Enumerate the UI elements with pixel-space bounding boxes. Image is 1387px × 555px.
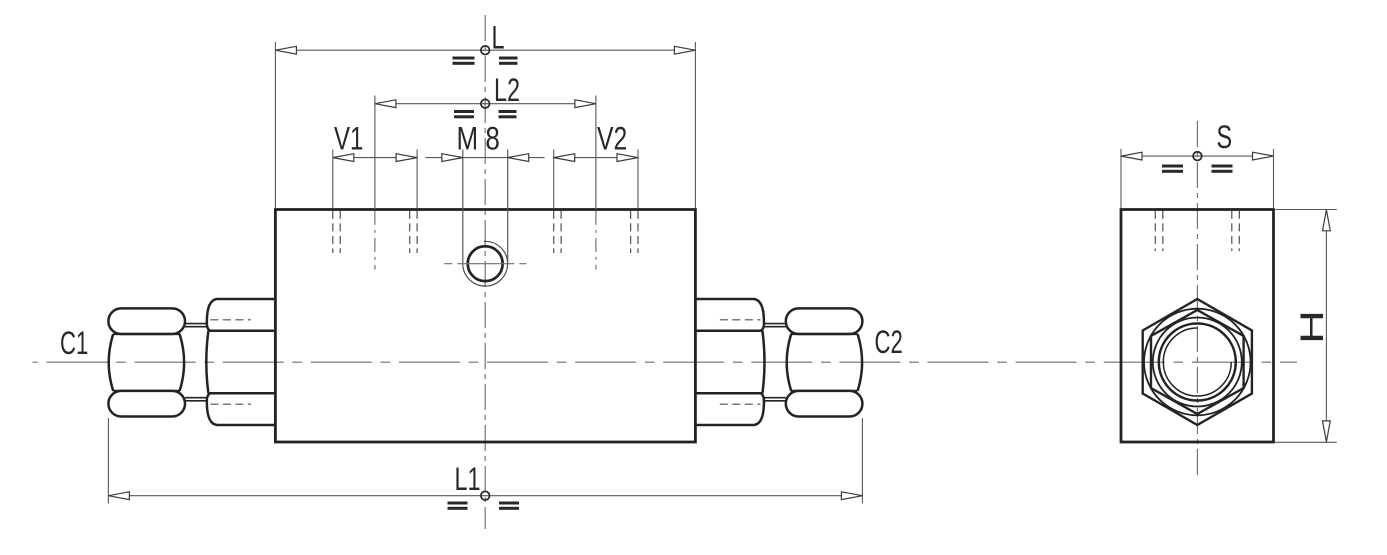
hex port inner chamfer circle <box>1153 318 1242 407</box>
nut R middle facet right chamfer arc <box>858 334 863 391</box>
L2 right extension line <box>595 96 597 210</box>
L2 left extension line <box>374 96 376 210</box>
hex L top band outline <box>207 299 276 331</box>
V1 dimension line <box>353 157 397 159</box>
hex port thread arc <box>1163 328 1231 396</box>
L1 dimension line <box>129 495 842 497</box>
svg-text:S: S <box>1217 118 1233 155</box>
hex port outer chamfer circle <box>1144 309 1251 416</box>
L1 center point symbol <box>481 491 490 500</box>
L dimension line <box>296 49 675 51</box>
V1 left arrowhead <box>333 154 354 162</box>
H bottom arrowhead <box>1323 421 1331 442</box>
nut L middle facet left chamfer arc <box>109 334 114 391</box>
S dimension line <box>1142 155 1254 157</box>
M8 hole bold circle <box>468 246 503 281</box>
L2 left arrowhead <box>375 100 396 108</box>
L2 symmetry marks <box>454 110 517 118</box>
dimension L1 <box>108 418 862 510</box>
L1 left arrowhead <box>108 492 129 500</box>
dimension M8 <box>425 121 544 162</box>
L2 right arrowhead <box>575 100 596 108</box>
L1 left extension line <box>107 418 109 504</box>
S left extension line <box>1120 149 1122 208</box>
hex L hidden thread line bottom <box>210 403 251 405</box>
port V2 hidden hole lines <box>554 211 638 253</box>
nut R bottom facet band <box>786 391 863 417</box>
side view hidden port lines <box>1155 211 1239 251</box>
left fitting neck tube lines <box>185 324 208 401</box>
V1 left extension line <box>332 150 334 209</box>
L2 center point symbol <box>481 99 490 108</box>
L2 dimension line <box>396 103 576 105</box>
port label C1 <box>60 325 88 361</box>
nut L lower facet line <box>113 390 180 392</box>
port V1 centerline <box>374 211 376 270</box>
M8 left leader line <box>425 157 462 159</box>
M8 right inward arrowhead <box>508 154 529 162</box>
M8 left inward arrowhead <box>442 154 463 162</box>
dimension S <box>1121 118 1274 208</box>
port V1 hidden hole lines <box>333 211 417 253</box>
L left extension line <box>274 42 276 208</box>
svg-text:C1: C1 <box>60 325 88 361</box>
S right arrowhead <box>1253 152 1274 160</box>
H bottom extension line <box>1274 441 1337 443</box>
hex port outer hexagon <box>1143 299 1252 425</box>
right fitting nut C2 <box>786 308 863 416</box>
side view hex port <box>1143 299 1252 425</box>
port label C2 <box>875 324 903 360</box>
L center point symbol <box>481 46 490 55</box>
M8 right extension line <box>507 150 509 264</box>
hex L middle facet chamfer arc <box>206 331 208 394</box>
H top extension line <box>1274 209 1337 211</box>
dimension H <box>1274 210 1337 443</box>
M8 right leader line <box>508 157 545 159</box>
H top arrowhead <box>1323 210 1331 231</box>
svg-text:C2: C2 <box>875 324 903 360</box>
nut L upper facet line <box>113 333 180 335</box>
hex R bottom band outline <box>695 393 764 425</box>
hex L hidden thread line top <box>210 319 251 321</box>
L symmetry marks <box>453 57 518 65</box>
hex R hidden thread line top <box>720 319 761 321</box>
right valve hex <box>695 299 764 425</box>
S left arrowhead <box>1121 152 1142 160</box>
svg-text:V1: V1 <box>334 121 363 157</box>
right fitting neck tube lines <box>763 324 786 401</box>
nut R middle facet left chamfer arc <box>787 334 792 391</box>
V2 left arrowhead <box>554 154 575 162</box>
side view body outline <box>1121 210 1274 443</box>
H dimension line <box>1325 230 1327 421</box>
hex R lower facet line <box>695 392 760 394</box>
V2 right arrowhead <box>617 154 638 162</box>
svg-text:V2: V2 <box>597 121 627 157</box>
dimension L <box>275 18 695 208</box>
svg-text:M 8: M 8 <box>457 121 500 157</box>
svg-text:H: H <box>1293 310 1330 344</box>
V1 right extension line <box>416 150 418 209</box>
dimension V1 <box>333 121 417 208</box>
L right arrowhead <box>674 46 695 54</box>
M8 left extension line <box>462 150 464 264</box>
hex R hidden thread line bottom <box>720 403 761 405</box>
front view vertical centerline <box>484 15 486 529</box>
V2 right extension line <box>637 150 639 209</box>
left valve hex <box>206 299 275 425</box>
M8 hole horizontal centerline <box>444 263 526 265</box>
nut L bottom facet band <box>108 391 185 417</box>
nut L top facet band <box>108 308 185 334</box>
M8 gauge hole <box>444 150 526 287</box>
left fitting nut C1 <box>108 308 185 416</box>
port V2 centerline <box>595 211 597 270</box>
hex R upper facet line <box>695 330 760 332</box>
svg-text:L: L <box>492 18 505 55</box>
dimension L2 <box>375 71 596 210</box>
L right extension line <box>694 42 696 208</box>
M8 dimension line <box>463 157 508 159</box>
hex R top band outline <box>695 299 764 331</box>
L1 right extension line <box>861 418 863 504</box>
M8 thread outer arc <box>463 241 508 286</box>
hex R middle facet chamfer arc <box>762 331 764 394</box>
svg-text:L1: L1 <box>455 460 481 497</box>
V1 right arrowhead <box>396 154 417 162</box>
S center point symbol <box>1193 152 1202 161</box>
S symmetry marks <box>1162 165 1233 173</box>
svg-text:L2: L2 <box>494 71 520 108</box>
L left arrowhead <box>275 46 296 54</box>
hex port bore bold circle <box>1159 324 1236 401</box>
L1 right arrowhead <box>841 492 862 500</box>
side view vertical centerline <box>1196 121 1198 477</box>
S right extension line <box>1273 149 1275 208</box>
hex L bottom band outline <box>207 393 276 425</box>
nut R lower facet line <box>791 390 858 392</box>
dimension V2 <box>554 121 638 208</box>
main horizontal centerline through both views <box>33 361 1298 363</box>
V2 left extension line <box>553 150 555 209</box>
hex L lower facet line <box>210 392 275 394</box>
hex L upper facet line <box>210 330 275 332</box>
nut R upper facet line <box>791 333 858 335</box>
V2 dimension line <box>574 157 618 159</box>
nut L middle facet right chamfer arc <box>180 334 185 391</box>
nut R top facet band <box>786 308 863 334</box>
L1 symmetry marks <box>448 502 520 510</box>
valve body outline (front view) <box>275 210 695 443</box>
hex port inner hexagon <box>1151 310 1244 414</box>
